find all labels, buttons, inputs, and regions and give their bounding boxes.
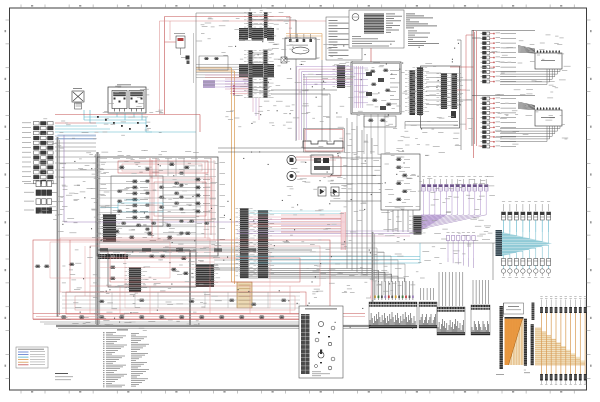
red supply rail 1 <box>33 313 365 315</box>
ECM red power loops <box>118 158 214 240</box>
teal harness fan <box>502 232 552 259</box>
machine ECM connector column J2 <box>413 67 430 115</box>
ground symbol near alternator <box>281 57 287 63</box>
cyan loop in ECM <box>100 203 163 212</box>
red supply rail 2 <box>36 316 365 318</box>
center harness connector CN4 <box>192 264 221 287</box>
cyan stub in ECM <box>124 199 140 201</box>
wire drops into table T2 <box>421 288 434 300</box>
teal harness connector <box>496 230 503 256</box>
chart bottom labels <box>496 370 530 375</box>
fan wedge into fuse block 2 <box>518 102 535 110</box>
ECM left connector strip <box>99 214 123 242</box>
relay board center connector <box>125 267 148 292</box>
drawing number CD-508 <box>55 373 73 380</box>
wire code notes text <box>406 14 439 47</box>
battery red wire loop B <box>66 292 306 314</box>
ECM perimeter labels <box>100 159 211 253</box>
second sensor cluster <box>446 233 475 269</box>
interface module connector strip B <box>447 73 463 109</box>
dash harness connector column A <box>244 50 259 98</box>
teal switch group top stubs <box>502 201 551 232</box>
wire color legend box <box>16 347 48 368</box>
control panel footnotes <box>312 372 330 377</box>
machine ECM internals <box>354 66 400 110</box>
gray riser from relay box <box>196 132 240 270</box>
purple run wires to center <box>237 231 421 236</box>
main bundle from ECM to tables <box>240 269 405 283</box>
label noise layer <box>39 8 571 331</box>
ECM interior cross wires <box>99 160 216 248</box>
stepped tan distribution block <box>535 328 585 365</box>
battery symbol circles <box>315 321 335 369</box>
connector pinout table T3 <box>437 307 465 335</box>
orange battery wires <box>196 68 237 284</box>
connector pinout table T1 <box>369 302 417 328</box>
fuse block FB1 return loops <box>472 31 560 85</box>
hour meter module <box>311 155 333 174</box>
fuse panel components <box>396 158 416 201</box>
extra ECM internal detail <box>101 158 226 248</box>
alternator tan wires <box>286 34 322 61</box>
left lamp connector clusters <box>24 181 57 213</box>
battery red wire loop C <box>75 296 295 310</box>
ECM bottom connector strip <box>98 254 128 259</box>
backup alarm B1 <box>72 88 84 109</box>
flasher relay K3 <box>165 33 186 55</box>
sensor stub group (lavender) <box>422 176 488 213</box>
main harness bus (bottom horizontal) <box>56 325 371 327</box>
black riser wires right of machine ECM <box>457 40 461 150</box>
gauge circle B <box>287 171 296 180</box>
wires exiting fuse panel left <box>330 158 381 201</box>
cab bulkhead connector J3 (tall strip) <box>22 122 53 184</box>
relay module board <box>108 251 196 287</box>
red top feed wire run <box>165 17 372 115</box>
red wires right of machine ECM <box>450 30 474 158</box>
wires fuse panel down <box>388 210 413 232</box>
wire drops into table T4 <box>473 243 493 304</box>
fuse block FB1 <box>535 50 562 69</box>
inline connector ears mid <box>239 64 274 77</box>
riser joint to interface module <box>457 80 472 100</box>
battery red wire loop A <box>33 240 330 319</box>
gray mesh lower-left <box>62 292 300 308</box>
gray wire bundle into columns <box>196 65 249 78</box>
breaker feed risers <box>472 30 482 146</box>
schematic legend box (left) <box>326 17 362 60</box>
numbered notes column 1 <box>103 330 128 388</box>
splice beads on alarm wires <box>97 116 148 130</box>
lavender field rows lower-center <box>281 215 341 232</box>
cyan signal wires from alarm <box>55 110 196 132</box>
circuit breaker column G1 <box>481 32 517 83</box>
relay box K1 K2 <box>108 85 146 114</box>
ECM service box below <box>364 116 396 127</box>
gray feed line to teal connector <box>420 240 496 244</box>
chart top tie bar <box>504 303 524 319</box>
tan riser wires with connectors <box>540 296 587 385</box>
relay K2 <box>129 91 144 112</box>
circuit breaker column G2 <box>481 97 517 148</box>
red wiring mesh lower-left <box>50 240 320 314</box>
orange chart dark wedge <box>505 319 523 365</box>
battery red wire loop D <box>60 238 210 292</box>
horizontal tie lines mid sheet <box>214 90 345 268</box>
diode D1 <box>318 187 326 196</box>
orange chart field <box>505 319 524 365</box>
teal switch group bottom stubs <box>501 259 551 278</box>
fuse block FB2 <box>535 107 562 126</box>
gauge circle A <box>287 155 296 164</box>
harness bus branch vertical <box>189 250 191 326</box>
junction box near flasher <box>194 33 229 83</box>
connector pinout table T4 <box>471 305 490 335</box>
interface module box <box>405 66 460 129</box>
control panel terminal strip <box>301 314 310 374</box>
bus right vertical (loop closure) <box>371 232 375 302</box>
long vertical bundle center <box>347 118 372 278</box>
relay K1 <box>112 91 127 112</box>
pink riser bar <box>341 212 346 250</box>
fuse relay panel box <box>381 154 420 210</box>
dash harness connector pair (top strips) <box>244 12 274 38</box>
components mid red field <box>35 263 287 306</box>
control battery start panel <box>299 306 343 378</box>
machine ECM left connector strip <box>333 65 352 88</box>
center harness connector CN6 <box>254 210 275 278</box>
purple riser wire <box>64 135 100 222</box>
pin jumper wires between columns <box>253 53 264 92</box>
machine ECM connector column J1 <box>405 70 421 115</box>
wire drops into table T1 <box>371 281 414 300</box>
cab ECM enclosure <box>97 157 218 256</box>
junction dots layer <box>62 41 460 329</box>
fuse/splice components on supply rails <box>61 316 305 319</box>
gray return rails <box>40 322 335 324</box>
purple net wire across ECM <box>100 221 345 223</box>
lavender bundle mid-left <box>203 75 249 88</box>
lavender harness wedge <box>421 213 486 231</box>
red feed wire from cab connector <box>55 115 200 133</box>
cab ECM inner module <box>111 176 163 226</box>
ECM internal component column <box>126 180 148 219</box>
black drop from alternator to key switch <box>296 59 322 141</box>
chart upper connector strip <box>532 303 535 321</box>
dash harness connector column B <box>259 50 274 98</box>
extra bundle rows into tables <box>214 248 405 295</box>
ECM right component column <box>195 178 210 213</box>
blue pair along left <box>58 135 97 139</box>
machine ECM box (double border) <box>351 62 401 114</box>
sensor harness connector (purple) <box>409 216 428 235</box>
chart right ladder bar A <box>524 319 527 366</box>
center harness connector CN5 <box>236 208 255 278</box>
red feed pair upper-left <box>160 21 171 115</box>
long gray tie to teal feed <box>99 242 420 244</box>
red wires from gauges <box>296 157 341 176</box>
cyan long run wires <box>236 243 420 263</box>
key switch enclosure box <box>304 129 345 153</box>
ECM top small components <box>114 163 191 239</box>
gray top wire run <box>196 8 296 132</box>
connector pinout table T2 <box>419 302 437 328</box>
diode D2 <box>331 187 339 196</box>
colored bundle center-left <box>249 211 342 229</box>
fuse block FB2 return loops <box>472 96 560 142</box>
battery disconnect switch outline <box>303 141 343 148</box>
wire drops into table T3 <box>439 272 463 306</box>
bus continuation to relay area <box>100 248 312 252</box>
chart right ladder bar B <box>531 324 534 365</box>
pink wire bundle into columns <box>225 79 259 120</box>
interface module connector strip A <box>437 73 454 109</box>
numbered notes column 2 <box>131 333 149 386</box>
lavender wires into machine ECM <box>297 67 354 141</box>
wires from J3 to harness bus <box>55 123 96 177</box>
harness bus branch horizontal <box>98 249 191 251</box>
alternator G1 <box>285 34 316 59</box>
machine note box with logo <box>349 10 404 48</box>
bus trace lines <box>58 140 370 329</box>
service connector (tan) <box>237 282 252 308</box>
relay board components <box>110 255 189 280</box>
chart left ladder bar <box>500 306 503 369</box>
fan wedge into fuse block 1 <box>518 46 535 54</box>
red supply rail 3 <box>33 319 340 321</box>
inline connector ears top <box>239 28 274 41</box>
main harness bus (frame vertical) <box>96 152 98 326</box>
main harness bus (left vertical) <box>57 137 59 317</box>
wire bundle ECM2 down to fuse panel <box>357 114 385 154</box>
monitor panel label box <box>504 303 524 314</box>
horn component <box>181 56 190 65</box>
